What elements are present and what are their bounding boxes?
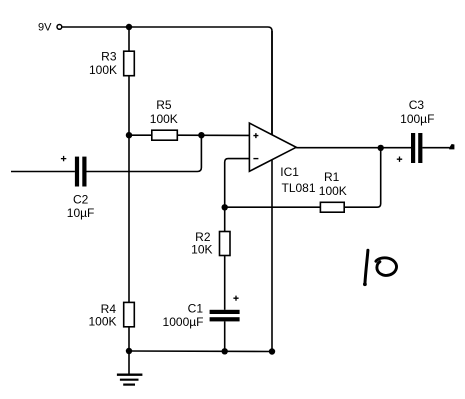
wire R1 to inverting node xyxy=(225,206,321,208)
svg-text:10µF: 10µF xyxy=(67,206,95,220)
svg-text:IC1: IC1 xyxy=(280,165,299,179)
node junction rail/R4/ground xyxy=(126,348,132,354)
op-amp U1 triangle xyxy=(249,123,315,195)
capacitor C3 polarity plus xyxy=(397,157,402,162)
resistor R3 xyxy=(89,50,134,78)
svg-text:100K: 100K xyxy=(88,315,116,329)
wire input line to C2 xyxy=(11,171,75,173)
wire op-amp output to C3 xyxy=(296,147,411,149)
wire C3 to output terminal xyxy=(422,147,449,149)
9V terminal circle xyxy=(57,25,62,30)
svg-text:100µF: 100µF xyxy=(400,112,434,126)
resistor R2 xyxy=(191,230,230,257)
wire R4 bottom lead xyxy=(128,327,130,351)
svg-text:R1: R1 xyxy=(324,170,340,184)
resistor R5 xyxy=(150,98,178,140)
wire R5 left lead xyxy=(129,134,152,136)
wire C1 bottom lead xyxy=(224,321,226,351)
output terminal pin xyxy=(449,144,454,149)
wire feedback from output junction down to R1 xyxy=(344,148,381,207)
node junction R3/R4/R5 xyxy=(126,132,132,138)
node junction rail/C1 xyxy=(222,348,228,354)
node junction top rail / R3 xyxy=(126,24,132,30)
capacitor C2 xyxy=(67,157,95,220)
svg-text:100K: 100K xyxy=(89,63,117,77)
svg-text:C2: C2 xyxy=(73,193,89,207)
svg-text:C3: C3 xyxy=(409,98,425,112)
wire R5 right lead to op-amp + input xyxy=(177,134,249,136)
wire bottom ground rail xyxy=(129,350,272,353)
svg-text:R5: R5 xyxy=(156,98,172,112)
svg-text:R3: R3 xyxy=(101,50,117,64)
wire R2 top lead xyxy=(224,207,226,231)
svg-text:1000µF: 1000µF xyxy=(163,315,204,329)
wire op-amp V+ power pin xyxy=(271,31,273,136)
node junction R5/C2 xyxy=(198,132,204,138)
capacitor C1 polarity plus xyxy=(233,296,238,301)
wire R3 bottom to mid junction xyxy=(128,76,130,136)
wire inverting input down to feedback node xyxy=(225,159,250,208)
capacitor C2 polarity plus xyxy=(61,156,66,161)
svg-text:TL081: TL081 xyxy=(282,181,316,195)
svg-text:100K: 100K xyxy=(150,112,178,126)
node junction rail/V- pin xyxy=(269,348,275,354)
wire C2 to R5 output junction xyxy=(87,135,202,171)
capacitor C1 xyxy=(163,302,240,330)
ground xyxy=(117,351,142,385)
wire mid junction down to R4 xyxy=(128,135,130,302)
svg-text:9V: 9V xyxy=(38,22,52,34)
svg-text:10K: 10K xyxy=(191,243,212,257)
wire top rail from 9V to op-amp V+ corner xyxy=(62,27,272,135)
wire R3 top lead xyxy=(128,27,130,51)
resistor R4 xyxy=(88,302,134,329)
resistor R1 xyxy=(319,170,347,212)
wire R2 to C1 xyxy=(224,256,226,310)
wire op-amp V- power pin xyxy=(271,159,273,352)
svg-text:100K: 100K xyxy=(319,184,347,198)
node junction output/feedback xyxy=(378,145,384,151)
svg-text:C1: C1 xyxy=(188,302,204,316)
node junction feedback/R2 xyxy=(222,204,228,210)
handwritten mark 10 xyxy=(363,250,397,286)
capacitor C3 xyxy=(400,98,434,163)
